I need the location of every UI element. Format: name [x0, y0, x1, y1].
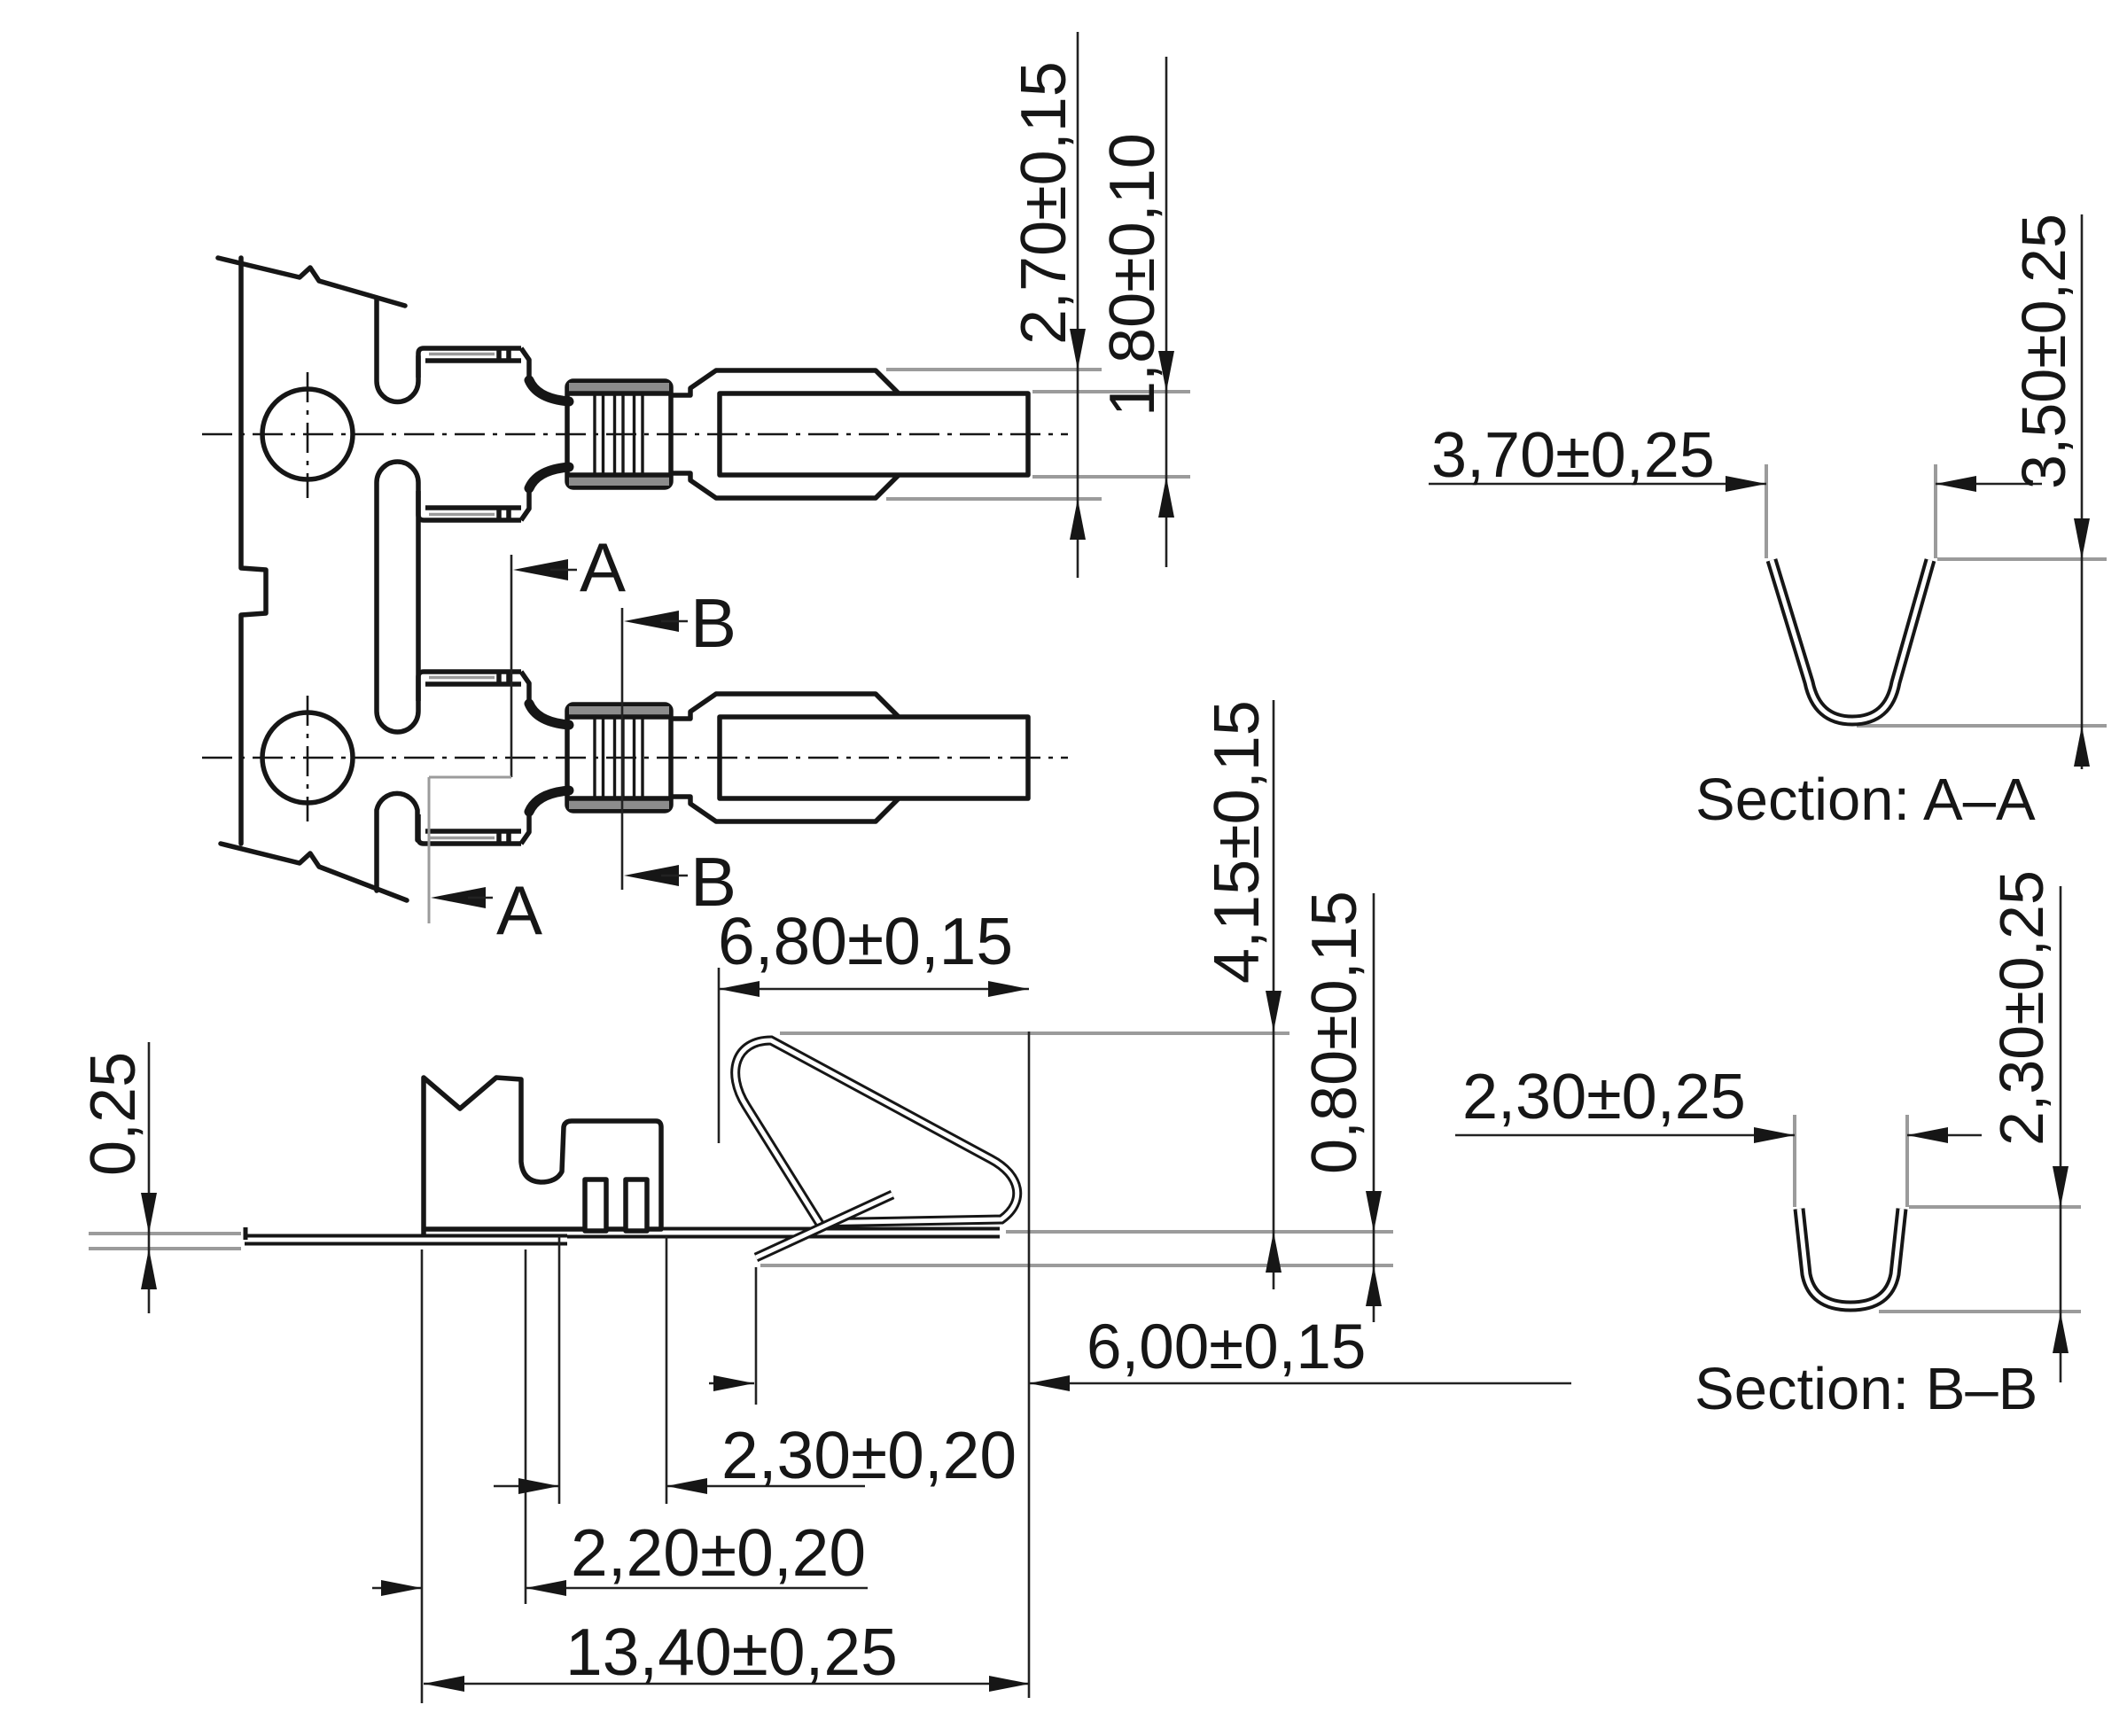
svg-text:1,80±0,10: 1,80±0,10: [1097, 133, 1168, 416]
svg-text:A: A: [580, 528, 626, 606]
svg-text:6,80±0,15: 6,80±0,15: [718, 904, 1013, 978]
svg-text:2,20±0,20: 2,20±0,20: [571, 1515, 866, 1590]
svg-text:B: B: [690, 584, 736, 662]
svg-text:Section: A–A: Section: A–A: [1695, 767, 2036, 833]
svg-text:4,15±0,15: 4,15±0,15: [1202, 700, 1273, 984]
svg-text:0,25: 0,25: [78, 1052, 149, 1176]
svg-text:2,30±0,20: 2,30±0,20: [721, 1418, 1017, 1492]
svg-text:6,00±0,15: 6,00±0,15: [1087, 1312, 1366, 1382]
svg-text:13,40±0,25: 13,40±0,25: [565, 1615, 898, 1689]
svg-text:3,50±0,25: 3,50±0,25: [2009, 214, 2078, 489]
svg-text:2,30±0,25: 2,30±0,25: [1462, 1062, 1746, 1133]
svg-text:2,30±0,25: 2,30±0,25: [1987, 870, 2056, 1146]
svg-text:Section: B–B: Section: B–B: [1695, 1356, 2037, 1422]
svg-text:2,70±0,15: 2,70±0,15: [1009, 61, 1079, 345]
svg-text:3,70±0,25: 3,70±0,25: [1431, 420, 1715, 491]
svg-text:A: A: [496, 871, 542, 949]
svg-text:0,80±0,15: 0,80±0,15: [1299, 891, 1370, 1174]
